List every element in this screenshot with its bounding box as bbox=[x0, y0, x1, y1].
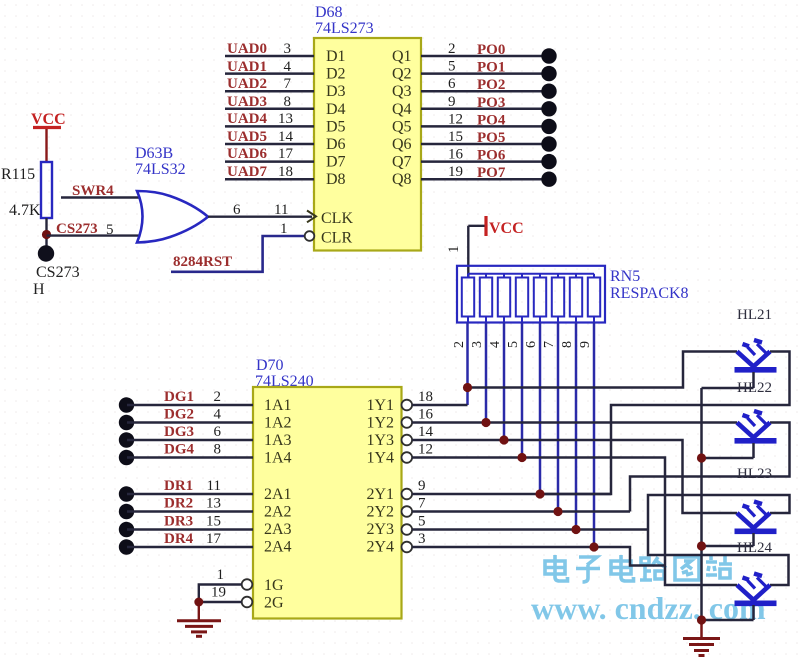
svg-text:11: 11 bbox=[207, 478, 221, 494]
resistor R115 bbox=[1, 162, 52, 219]
wire respack pin7 down bbox=[557, 323, 560, 512]
wire 1Y4 pin12 to HL24 left bbox=[412, 458, 737, 586]
wire R115 to node bbox=[45, 218, 47, 252]
svg-text:7: 7 bbox=[284, 76, 292, 92]
wire respack pin5 down bbox=[521, 323, 524, 458]
svg-text:Q7: Q7 bbox=[392, 154, 412, 171]
junction dot net7 bbox=[553, 507, 562, 516]
svg-text:CLK: CLK bbox=[321, 210, 353, 227]
wire Q4 pin9 PO3 bbox=[421, 94, 557, 117]
svg-text:8284RST: 8284RST bbox=[173, 254, 232, 270]
svg-text:9: 9 bbox=[578, 341, 593, 348]
wire 8284RST to CLR bbox=[171, 221, 304, 272]
junction cathode HL24 bbox=[697, 615, 706, 624]
wire HL23 anode return (net 2Y3) bbox=[648, 495, 790, 585]
char tu bbox=[675, 557, 699, 580]
wire SWR4 bbox=[61, 183, 148, 199]
svg-text:12: 12 bbox=[448, 111, 463, 127]
output rows PO0-PO7 bbox=[421, 41, 557, 187]
junction dot net3 bbox=[589, 542, 598, 551]
junction cathode HL22 bbox=[697, 453, 706, 462]
svg-text:Q8: Q8 bbox=[392, 171, 412, 188]
svg-text:D68: D68 bbox=[315, 4, 343, 21]
svg-text:9: 9 bbox=[418, 478, 426, 494]
ground (left) bbox=[177, 621, 221, 637]
resistors in RN5 r1-r8 bbox=[462, 274, 600, 323]
pin labels D1-D8 bbox=[326, 48, 346, 188]
svg-text:14: 14 bbox=[278, 129, 294, 145]
junction dot net12 bbox=[517, 453, 526, 462]
svg-text:CS273: CS273 bbox=[36, 264, 80, 281]
svg-text:18: 18 bbox=[418, 389, 433, 405]
svg-text:Q3: Q3 bbox=[392, 83, 412, 100]
LEDS bbox=[735, 307, 777, 620]
LED HL24 bbox=[735, 540, 777, 620]
svg-text:17: 17 bbox=[206, 531, 222, 547]
wire UAD7 pin18 bbox=[225, 164, 314, 180]
svg-text:2Y4: 2Y4 bbox=[366, 539, 394, 556]
wire 2Y3 pin5 bbox=[412, 528, 648, 531]
wire DR4 pin17 bbox=[119, 531, 253, 555]
pin label CLR + circle bbox=[305, 230, 353, 247]
node CS273 stub dot bbox=[38, 245, 54, 261]
wire HL24 cathode bbox=[702, 619, 754, 622]
pin labels 2Y1-2Y4 bbox=[366, 486, 394, 556]
svg-text:UAD7: UAD7 bbox=[227, 164, 267, 180]
wire 2Y1 pin9 bbox=[412, 493, 611, 496]
wire UAD6 pin17 bbox=[225, 146, 314, 162]
svg-text:D3: D3 bbox=[326, 83, 346, 100]
pin labels 1Y1-1Y4 bbox=[366, 397, 394, 467]
svg-text:74LS32: 74LS32 bbox=[135, 161, 186, 178]
wire Q5 pin12 PO4 bbox=[421, 111, 557, 134]
svg-text:1A1: 1A1 bbox=[264, 397, 292, 414]
svg-text:UAD6: UAD6 bbox=[227, 146, 267, 162]
wire HL21 cathode bbox=[702, 387, 754, 390]
svg-text:3: 3 bbox=[470, 341, 485, 348]
svg-text:12: 12 bbox=[418, 442, 433, 458]
svg-text:Q5: Q5 bbox=[392, 118, 412, 135]
svg-text:1A3: 1A3 bbox=[264, 432, 292, 449]
svg-text:H: H bbox=[33, 281, 45, 298]
input rows UAD0-UAD7 bbox=[225, 41, 314, 180]
svg-text:UAD0: UAD0 bbox=[227, 41, 267, 57]
svg-text:1Y1: 1Y1 bbox=[366, 397, 394, 414]
wire gate output to CLK bbox=[208, 202, 312, 218]
wire HL21 anode loop (net 1Y1/2Y1) bbox=[468, 352, 790, 495]
pin labels 1G 2G bbox=[264, 577, 284, 612]
input rows DG1-DG4 bbox=[119, 389, 253, 465]
svg-text:HL23: HL23 bbox=[737, 466, 772, 482]
IC D70 74LS240 body bbox=[253, 357, 402, 619]
ground (right) bbox=[683, 639, 720, 656]
pin label CLK bbox=[307, 210, 353, 227]
wire DG1 pin2 bbox=[119, 389, 253, 413]
svg-text:2Y1: 2Y1 bbox=[366, 486, 394, 503]
wire HL23 cathode bbox=[702, 545, 754, 548]
wire 1Y3 pin14 to HL23 left bbox=[412, 440, 737, 513]
WATERMARK bbox=[531, 555, 766, 626]
wire respack pin6 down bbox=[539, 323, 542, 495]
svg-text:5: 5 bbox=[418, 514, 426, 530]
svg-text:Q1: Q1 bbox=[392, 48, 412, 65]
svg-text:UAD4: UAD4 bbox=[227, 111, 267, 127]
svg-text:R115: R115 bbox=[1, 166, 35, 183]
svg-text:15: 15 bbox=[206, 514, 221, 530]
svg-text:2G: 2G bbox=[264, 595, 284, 612]
wire HL22 anode return bbox=[630, 423, 790, 512]
svg-text:DG1: DG1 bbox=[164, 389, 194, 405]
svg-text:RN5: RN5 bbox=[610, 268, 640, 285]
svg-text:14: 14 bbox=[418, 424, 434, 440]
pin 1G circle + wire pin1 bbox=[199, 567, 253, 620]
svg-text:1Y3: 1Y3 bbox=[366, 432, 394, 449]
svg-text:DG4: DG4 bbox=[164, 442, 195, 458]
junction cathode HL23 bbox=[697, 541, 706, 550]
svg-text:2Y3: 2Y3 bbox=[366, 521, 394, 538]
wire 1Y2 pin16 to HL22 bbox=[412, 421, 737, 424]
wire cathode common bbox=[700, 388, 703, 620]
svg-text:UAD5: UAD5 bbox=[227, 129, 267, 145]
svg-text:19: 19 bbox=[211, 585, 226, 601]
wire UAD5 pin14 bbox=[225, 129, 314, 145]
wire UAD3 pin8 bbox=[225, 94, 314, 110]
wire respack pin9 down bbox=[593, 323, 596, 548]
power VCC (left) bbox=[31, 111, 66, 162]
svg-text:2Y2: 2Y2 bbox=[366, 504, 394, 521]
svg-text:2: 2 bbox=[448, 41, 456, 57]
svg-text:DR3: DR3 bbox=[164, 514, 193, 530]
svg-text:D1: D1 bbox=[326, 48, 346, 65]
wire respack pin2 down bbox=[466, 323, 469, 406]
svg-text:6: 6 bbox=[214, 424, 222, 440]
wire Q6 pin15 PO5 bbox=[421, 129, 557, 152]
svg-text:D7: D7 bbox=[326, 154, 346, 171]
wire 2Y2 pin7 bbox=[412, 510, 630, 513]
wire respack pin1 bbox=[446, 226, 468, 278]
wire DR1 pin11 bbox=[119, 478, 253, 502]
svg-text:5: 5 bbox=[448, 59, 456, 75]
wire DR3 pin15 bbox=[119, 514, 253, 538]
svg-text:D70: D70 bbox=[256, 357, 284, 374]
wire 2Y4 pin3 bbox=[412, 547, 665, 566]
wire respack pin8 down bbox=[575, 323, 578, 530]
svg-text:2A1: 2A1 bbox=[264, 486, 292, 503]
IC D68 74LS273 body bbox=[314, 4, 421, 251]
pin 2G circle + wire pin19 bbox=[199, 585, 253, 608]
wire DR2 pin13 bbox=[119, 496, 253, 520]
svg-text:4: 4 bbox=[488, 341, 503, 348]
wire Q7 pin16 PO6 bbox=[421, 147, 557, 170]
svg-text:74LS273: 74LS273 bbox=[315, 20, 374, 37]
svg-text:18: 18 bbox=[278, 164, 293, 180]
svg-text:DG3: DG3 bbox=[164, 424, 194, 440]
svg-text:1: 1 bbox=[217, 567, 225, 583]
svg-text:1Y2: 1Y2 bbox=[366, 415, 394, 432]
svg-text:2: 2 bbox=[452, 341, 467, 348]
svg-text:19: 19 bbox=[448, 164, 463, 180]
wire respack pin4 down bbox=[503, 323, 506, 441]
char lu bbox=[640, 557, 666, 580]
wire cathode to ground bbox=[700, 620, 703, 637]
pin labels 1A1-1A4 bbox=[264, 397, 292, 467]
svg-text:HL22: HL22 bbox=[737, 380, 772, 396]
svg-text:6: 6 bbox=[524, 341, 539, 348]
svg-text:6: 6 bbox=[448, 76, 456, 92]
wire HL22 cathode bbox=[702, 457, 754, 460]
RIGHTWIRES bbox=[412, 352, 790, 656]
output pin circles 1Y1-1Y4 2Y1-2Y4 bbox=[402, 400, 413, 553]
input rows DR1-DR4 bbox=[119, 478, 253, 555]
svg-text:16: 16 bbox=[418, 407, 434, 423]
svg-text:7: 7 bbox=[542, 341, 557, 348]
wire DG2 pin4 bbox=[119, 407, 253, 431]
svg-text:3: 3 bbox=[284, 41, 292, 57]
svg-text:1A4: 1A4 bbox=[264, 450, 292, 467]
svg-text:Q6: Q6 bbox=[392, 136, 412, 153]
pin numbers 2-9 bbox=[452, 341, 593, 348]
power VCC (respack) bbox=[468, 216, 523, 237]
LED HL23 bbox=[735, 466, 777, 546]
wire UAD0 pin3 bbox=[225, 41, 314, 57]
svg-text:2A3: 2A3 bbox=[264, 521, 292, 538]
svg-text:8: 8 bbox=[560, 341, 575, 348]
svg-text:VCC: VCC bbox=[31, 111, 66, 128]
LED HL22 bbox=[735, 380, 777, 458]
wire CS273 pin5 bbox=[47, 221, 151, 238]
svg-text:17: 17 bbox=[278, 146, 294, 162]
char dian2 bbox=[611, 555, 634, 581]
svg-text:2A2: 2A2 bbox=[264, 504, 292, 521]
svg-text:RESPACK8: RESPACK8 bbox=[610, 285, 689, 302]
junction dot net5 bbox=[571, 525, 580, 534]
svg-text:1Y4: 1Y4 bbox=[366, 450, 394, 467]
pin labels 2A1-2A4 bbox=[264, 486, 292, 556]
svg-text:13: 13 bbox=[206, 496, 221, 512]
svg-text:5: 5 bbox=[506, 341, 521, 348]
junction CS273 bbox=[42, 230, 51, 239]
svg-text:D6: D6 bbox=[326, 136, 346, 153]
svg-text:HL21: HL21 bbox=[737, 307, 772, 323]
wire UAD2 pin7 bbox=[225, 76, 314, 92]
wire DG4 pin8 bbox=[119, 442, 253, 466]
svg-text:9: 9 bbox=[448, 94, 456, 110]
wire Q3 pin6 PO2 bbox=[421, 76, 557, 99]
svg-text:3: 3 bbox=[418, 531, 426, 547]
svg-text:1: 1 bbox=[280, 221, 288, 237]
wire 1Y1 pin18 bbox=[412, 404, 468, 407]
svg-text:1G: 1G bbox=[264, 577, 284, 594]
RESPACK bbox=[446, 216, 689, 547]
svg-text:1A2: 1A2 bbox=[264, 415, 292, 432]
svg-text:15: 15 bbox=[448, 129, 463, 145]
svg-text:8: 8 bbox=[214, 442, 222, 458]
svg-text:D8: D8 bbox=[326, 171, 346, 188]
wire UAD4 pin13 bbox=[225, 111, 314, 127]
resistor-network RN5 RESPACK8 body bbox=[457, 266, 689, 323]
output pin numbers bbox=[418, 389, 434, 547]
svg-text:4: 4 bbox=[214, 407, 222, 423]
svg-text:D2: D2 bbox=[326, 66, 346, 83]
LEFTBLOCK bbox=[1, 111, 312, 298]
op-gate U-D63B 74LS32 OR bbox=[135, 145, 208, 243]
svg-text:7: 7 bbox=[418, 496, 426, 512]
char dian1 bbox=[545, 555, 568, 581]
LED HL21 bbox=[735, 307, 777, 388]
junction dot net16 bbox=[481, 418, 490, 427]
svg-text:DG2: DG2 bbox=[164, 407, 194, 423]
wire respack pin3 down bbox=[485, 323, 488, 423]
wire DG3 pin6 bbox=[119, 424, 253, 448]
svg-text:4.7K: 4.7K bbox=[9, 202, 41, 219]
CHIP68 bbox=[225, 4, 557, 251]
svg-text:D4: D4 bbox=[326, 101, 346, 118]
pin labels Q1-Q8 bbox=[392, 48, 412, 188]
svg-text:HL24: HL24 bbox=[737, 540, 772, 556]
junction at ground bbox=[194, 598, 203, 607]
svg-text:1: 1 bbox=[446, 246, 462, 254]
wire UAD1 pin4 bbox=[225, 59, 314, 75]
svg-text:16: 16 bbox=[448, 147, 464, 163]
char zhan bbox=[706, 556, 732, 578]
svg-text:UAD2: UAD2 bbox=[227, 76, 267, 92]
svg-text:13: 13 bbox=[278, 111, 293, 127]
svg-text:Q2: Q2 bbox=[392, 66, 412, 83]
svg-text:D63B: D63B bbox=[135, 145, 173, 162]
junction dot net2 bbox=[463, 383, 472, 392]
node label CS273 H bbox=[33, 264, 80, 298]
CHIP70 bbox=[119, 357, 434, 636]
svg-text:2: 2 bbox=[214, 389, 222, 405]
junction dot net9 bbox=[535, 489, 544, 498]
wire Q8 pin19 PO7 bbox=[421, 164, 557, 187]
char zi bbox=[576, 557, 600, 582]
svg-text:Q4: Q4 bbox=[392, 101, 412, 118]
svg-text:CLR: CLR bbox=[321, 230, 352, 247]
svg-text:DR1: DR1 bbox=[164, 478, 193, 494]
junction dot net14 bbox=[499, 435, 508, 444]
wire Q1 pin2 PO0 bbox=[421, 41, 557, 64]
svg-text:2A4: 2A4 bbox=[264, 539, 292, 556]
svg-text:DR4: DR4 bbox=[164, 531, 194, 547]
svg-text:D5: D5 bbox=[326, 118, 346, 135]
svg-text:DR2: DR2 bbox=[164, 496, 193, 512]
wire Q2 pin5 PO1 bbox=[421, 59, 557, 82]
svg-text:VCC: VCC bbox=[489, 220, 524, 237]
